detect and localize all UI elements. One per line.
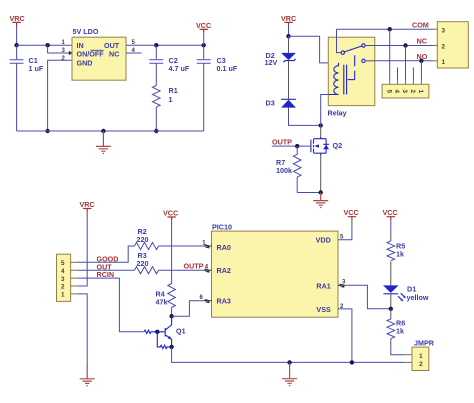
pic U1 PIC10 box	[212, 223, 339, 318]
wire VDD to VCC	[338, 220, 352, 240]
pin glyph RA2	[203, 269, 211, 273]
zener diode D2	[265, 51, 296, 99]
relay blade	[344, 46, 361, 52]
power flag VRC (top-left)	[10, 14, 25, 26]
wire VRC down to pin2	[77, 212, 87, 287]
wire R7 bottom to source	[297, 192, 321, 194]
wire OUT from pin4 through R3	[77, 269, 134, 271]
capacitor C1	[10, 56, 44, 131]
stub J4 pin3	[405, 80, 407, 85]
svg-text:Relay: Relay	[328, 109, 347, 118]
wire pin3 riser to NC	[405, 46, 407, 80]
wire to LDO pin3	[48, 45, 69, 53]
connector J4 (5-pin relay out) box	[382, 84, 429, 98]
svg-text:Q2: Q2	[333, 141, 343, 150]
wire LDO OUT to VCC rail	[126, 44, 204, 46]
node OUTP / R7	[295, 144, 299, 148]
stub J1 pin1	[71, 293, 78, 295]
svg-text:VRC: VRC	[80, 200, 95, 209]
svg-text:VDD: VDD	[316, 236, 331, 245]
mosfet Q2	[311, 137, 342, 155]
relay pole wire from top	[337, 37, 341, 52]
svg-text:12V: 12V	[265, 58, 278, 67]
wire NO line	[375, 60, 433, 62]
stub J4 pin2	[412, 80, 414, 85]
svg-text:D3: D3	[266, 99, 275, 108]
node coil return / Q2 drain	[319, 123, 323, 127]
svg-text:VRC: VRC	[10, 14, 25, 23]
node source/ground	[319, 190, 323, 194]
regulator U2 5V LDO box	[72, 27, 126, 80]
svg-text:1: 1	[419, 353, 423, 360]
svg-text:220: 220	[137, 259, 149, 268]
power flag VRC (relay section)	[281, 14, 296, 26]
wire VRC down to node	[16, 26, 18, 46]
wire node down to Q2 drain	[320, 125, 322, 138]
resistor R3	[135, 251, 159, 274]
svg-text:2: 2	[419, 361, 423, 368]
svg-text:Q1: Q1	[176, 327, 186, 336]
wire VCC down	[203, 32, 205, 45]
wire COM line	[337, 28, 433, 30]
svg-text:47k: 47k	[156, 298, 168, 307]
svg-text:4: 4	[61, 268, 65, 275]
wire VRC down	[288, 26, 290, 37]
svg-text:VCC: VCC	[163, 209, 178, 218]
wire GOOD from pin5 to R2	[77, 246, 134, 262]
wire node to LDO pin1	[17, 44, 72, 46]
wire pin5 riser to COM	[389, 29, 391, 79]
node at C1 top	[14, 43, 18, 47]
stub JMPR pin2	[405, 361, 413, 363]
resistor R7	[276, 146, 301, 192]
node VCC / C3	[202, 43, 206, 47]
wire VCC down to R4	[171, 220, 173, 284]
wire ground rail (top section)	[17, 130, 204, 132]
SECTION: bottom PIC10	[57, 200, 435, 386]
svg-text:RA2: RA2	[217, 266, 231, 275]
wire R6 to JMPR pin1	[390, 339, 392, 348]
wire pin1 to ground	[77, 294, 87, 364]
svg-text:RA1: RA1	[316, 281, 330, 290]
diode D3	[266, 99, 296, 108]
wire pin1 riser to NO	[420, 61, 422, 80]
svg-text:NC: NC	[109, 50, 119, 59]
relay pole contact circle	[341, 51, 344, 54]
stub J4 pin4	[397, 80, 399, 85]
svg-text:4.7 uF: 4.7 uF	[169, 64, 190, 73]
svg-text:VSS: VSS	[316, 305, 331, 314]
wire D3 down and over to coil return	[288, 108, 290, 117]
wire pin4 open stub	[397, 68, 399, 80]
svg-text:220: 220	[137, 235, 149, 244]
wire RCIN from pin3 down to Q1 base resistor	[77, 278, 144, 332]
stub J4 pin5	[389, 80, 391, 85]
node D1 / R6 / RA1	[389, 307, 393, 311]
svg-text:VCC: VCC	[196, 21, 211, 30]
node pin1/pin3 branch	[45, 43, 49, 47]
wire C2 column	[155, 45, 157, 59]
ground symbol (relay section)	[313, 193, 328, 208]
svg-text:5: 5	[385, 89, 392, 93]
wire R3 to RA2	[159, 269, 204, 271]
svg-text:VCC: VCC	[383, 208, 398, 217]
power flag VCC (top)	[196, 21, 211, 32]
svg-text:5: 5	[61, 260, 65, 267]
wire node to relay coil top	[289, 36, 329, 63]
node VSS on rail	[350, 360, 354, 364]
svg-text:3: 3	[442, 27, 446, 34]
capacitor C3	[197, 56, 238, 131]
LED D1	[383, 285, 429, 309]
resistor R1	[153, 86, 178, 108]
node VRC branch	[286, 34, 290, 38]
stub JMPR pin1	[405, 354, 413, 356]
relay NO contact lead	[365, 60, 375, 62]
svg-text:VCC: VCC	[344, 208, 359, 217]
stub J1 pin5	[71, 261, 78, 263]
stub LDO pin4 NC	[126, 52, 142, 54]
svg-text:0.1 uF: 0.1 uF	[217, 64, 238, 73]
stub J3 pin3	[433, 28, 438, 30]
pin glyph RA0	[203, 244, 211, 248]
wire node to RA3 riser	[172, 301, 204, 317]
relay NO contact circle	[362, 59, 365, 62]
wire coil return down left side	[321, 95, 329, 126]
stub J3 pin2	[433, 45, 438, 47]
wire relay common up to COM line	[336, 29, 338, 37]
wire VCC down to R5	[390, 220, 392, 231]
wire R1 to rail	[155, 107, 157, 131]
svg-text:RA3: RA3	[217, 297, 231, 306]
svg-text:COM: COM	[412, 21, 429, 30]
stub J1 pin3	[71, 277, 78, 279]
resistor R2	[135, 227, 159, 250]
svg-text:1: 1	[169, 95, 173, 104]
SECTION: top-right relay driver	[265, 14, 469, 208]
node ground tap	[101, 129, 105, 133]
node NC / pin3 riser	[403, 43, 407, 47]
svg-text:2: 2	[61, 284, 65, 291]
svg-text:JMPR: JMPR	[414, 339, 435, 348]
wire R2 to RA0	[159, 245, 204, 247]
resistor R5	[387, 241, 405, 261]
svg-text:GND: GND	[77, 59, 93, 68]
pin glyph RA3	[203, 299, 211, 303]
svg-text:1: 1	[442, 59, 446, 66]
pin glyph RA1	[338, 284, 346, 288]
wire VSS down to rail	[338, 309, 352, 363]
transistor Q1 (digital NPN)	[144, 316, 185, 349]
svg-text:RA0: RA0	[217, 243, 231, 252]
relay NC contact circle	[362, 44, 365, 47]
svg-text:5V LDO: 5V LDO	[73, 27, 99, 36]
wire R4 bottom to node	[171, 308, 173, 317]
relay coil	[328, 63, 338, 95]
relay core lines	[344, 65, 347, 95]
power flag VCC (bottom-left)	[163, 209, 178, 221]
svg-text:3: 3	[401, 89, 408, 93]
resistor R4	[156, 284, 176, 308]
wire node to C1	[16, 45, 18, 59]
svg-text:NC: NC	[417, 37, 427, 46]
capacitor C2	[149, 56, 189, 86]
svg-text:1: 1	[417, 89, 424, 93]
svg-text:1k: 1k	[396, 327, 404, 336]
svg-text:3: 3	[61, 276, 65, 283]
stub J1 pin4	[71, 269, 78, 271]
wire NC line	[375, 45, 433, 47]
svg-text:yellow: yellow	[407, 293, 429, 302]
resistor R6	[387, 309, 405, 339]
node COM / pin5 riser	[388, 27, 392, 31]
pin3 input arrow	[69, 51, 73, 55]
svg-text:2: 2	[409, 89, 416, 93]
node C2 top	[154, 43, 158, 47]
power flag VCC (LED)	[383, 208, 398, 220]
node ground tap on rail	[287, 360, 291, 364]
wire OUTP to gate	[272, 145, 311, 147]
node R1 on rail	[154, 129, 158, 133]
svg-text:4: 4	[393, 89, 400, 93]
stub J3 pin1	[433, 60, 438, 62]
SECTION: top-left 5V LDO regulator	[10, 14, 238, 154]
svg-text:1 uF: 1 uF	[29, 64, 44, 73]
svg-text:OUTP: OUTP	[272, 138, 292, 147]
relay K1 box	[328, 37, 375, 105]
ground symbol (bottom-center)	[282, 362, 297, 385]
connector J3 (COM/NC/NO) box	[437, 22, 468, 68]
ground symbol (top section)	[96, 131, 111, 154]
svg-text:1k: 1k	[396, 250, 404, 259]
svg-text:VRC: VRC	[281, 14, 296, 23]
relay NC contact lead	[365, 45, 375, 47]
wire Q2 source down	[320, 154, 322, 193]
power flag VRC (bottom)	[80, 200, 95, 212]
power flag VCC (VDD)	[344, 208, 359, 220]
connector J1 (RC input) box	[57, 254, 71, 301]
wire pin2 open stub	[412, 68, 414, 80]
connector JMPR box	[412, 347, 429, 370]
node GND wire on rail	[45, 129, 49, 133]
svg-text:1: 1	[61, 292, 65, 299]
svg-text:2: 2	[442, 44, 446, 51]
svg-text:100k: 100k	[276, 166, 292, 175]
svg-text:OUTP: OUTP	[184, 261, 204, 270]
svg-text:ON/OFF: ON/OFF	[77, 50, 105, 59]
node R4 / Q1 collector / RA3	[169, 314, 173, 318]
stub J4 pin1	[420, 80, 422, 85]
relay actuator foot	[348, 79, 355, 81]
node NO / pin1 riser	[419, 59, 423, 63]
wire node down to D2	[288, 36, 290, 40]
stub J1 pin2	[71, 285, 78, 287]
wire LDO pin2 GND down to rail	[48, 60, 72, 131]
wire RA1 to LED node	[347, 285, 391, 309]
svg-text:R1: R1	[169, 86, 178, 95]
ground symbol (bottom-left)	[80, 364, 95, 386]
wire C3 column	[203, 45, 205, 59]
wire Q1 emitter to rail	[172, 347, 405, 362]
wire R5 to D1	[390, 262, 392, 286]
svg-text:PIC10: PIC10	[212, 223, 232, 232]
relay actuator dashed link	[354, 55, 356, 79]
